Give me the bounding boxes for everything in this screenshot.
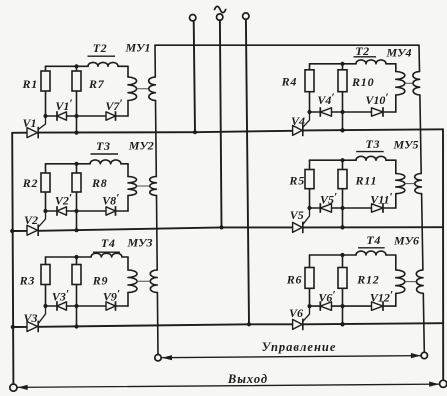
thyristor V5	[290, 208, 310, 233]
svg-text:V2: V2	[24, 213, 38, 227]
svg-text:V10′: V10′	[365, 92, 388, 107]
junction at R10 bottom	[340, 110, 344, 114]
junction at R9 bottom	[74, 304, 78, 308]
wire gate row left of МУ6	[310, 305, 321, 307]
junction R12 rail / row3	[340, 322, 344, 326]
svg-text:V6′: V6′	[318, 289, 335, 304]
svg-text:R11: R11	[355, 174, 378, 188]
resistor R5	[288, 170, 314, 189]
arrowhead output right	[429, 382, 439, 387]
diode V6'	[320, 301, 331, 311]
wire right edge of МУ4	[395, 64, 397, 72]
wire top-right of МУ3	[122, 256, 128, 258]
svg-text:МУ5: МУ5	[392, 138, 418, 152]
wire middle rail of МУ4	[342, 64, 344, 131]
resistor R6	[286, 268, 314, 289]
terminal control left	[155, 355, 161, 361]
junction at R8 bottom	[74, 209, 78, 213]
wire gate row right of МУ5	[383, 207, 396, 209]
transformer winding T3 of МУ2	[90, 160, 121, 164]
thyristor V4	[291, 112, 310, 136]
wire top of МУ3	[46, 256, 92, 258]
junction R10 rail to power row	[340, 128, 344, 132]
svg-text:R5: R5	[288, 174, 305, 188]
wire gate row mid of МУ3	[67, 305, 107, 307]
svg-text:V7′: V7′	[105, 98, 122, 113]
wire top of МУ2	[46, 163, 91, 165]
wire left rail of МУ6	[309, 255, 311, 306]
wire middle rail of МУ3	[76, 257, 78, 327]
AC supply tilde symbol	[215, 6, 226, 12]
wire middle rail of МУ2	[76, 164, 78, 230]
wire phase A	[194, 21, 195, 132]
wire row3 mid	[39, 324, 249, 327]
junction at R2 bottom	[43, 209, 47, 213]
junction phase A / row1	[193, 130, 197, 134]
control winding of МУ5	[415, 174, 422, 194]
svg-text:R12: R12	[356, 272, 379, 286]
svg-text:V2′: V2′	[55, 192, 72, 207]
resistor R1	[22, 71, 51, 91]
svg-text:T3: T3	[366, 137, 381, 151]
resistor R4	[281, 70, 314, 92]
resistor R8	[72, 173, 108, 192]
diode V5'	[320, 203, 331, 213]
svg-text:V8′: V8′	[102, 192, 119, 207]
wire control link	[162, 356, 422, 358]
magnetic core link of МУ3	[137, 280, 150, 282]
wire top-right of МУ6	[386, 254, 396, 256]
arrowhead control right	[411, 353, 421, 358]
terminal output left	[10, 384, 17, 391]
thyristor V3	[23, 306, 45, 332]
junction R12 rail to power row	[340, 322, 344, 326]
resistor R9	[72, 265, 108, 288]
wire gate row right of МУ6	[383, 305, 396, 307]
magnetic core link of МУ1	[137, 88, 148, 90]
wire right edge lower of МУ4	[395, 95, 397, 112]
wire row2 to V5	[222, 226, 293, 228]
output winding of МУ4	[396, 72, 405, 95]
wire top of МУ5	[310, 159, 357, 161]
node power row 1 (V1-V4)	[12, 132, 27, 134]
wire left rail of МУ5	[309, 160, 311, 208]
svg-text:R2: R2	[22, 176, 39, 190]
junction at R1 bottom	[43, 114, 47, 118]
magnetic core link of МУ6	[405, 281, 415, 283]
svg-text:R8: R8	[91, 176, 108, 190]
wire top of МУ1	[46, 65, 89, 67]
output winding of МУ3	[128, 270, 137, 293]
wire left rail of МУ1	[45, 66, 47, 116]
wire row1 mid	[39, 131, 195, 133]
wire right edge lower of МУ2	[127, 196, 129, 212]
wire phase C	[246, 19, 249, 324]
label T3 (МУ5)	[356, 137, 384, 152]
wire left rail of МУ4	[309, 64, 311, 112]
svg-text:R3: R3	[19, 273, 36, 287]
diode V1'	[57, 111, 67, 121]
resistor R11	[338, 170, 377, 189]
AC terminal phase C	[243, 13, 249, 19]
control winding of МУ1	[149, 77, 156, 100]
svg-text:V5: V5	[290, 208, 304, 222]
control winding of МУ2	[150, 177, 157, 196]
wire left rail of МУ3	[45, 257, 47, 306]
control winding of МУ6	[416, 270, 423, 293]
wire right edge lower of МУ3	[127, 293, 129, 307]
svg-text:V3: V3	[23, 311, 37, 325]
svg-text:V9′: V9′	[103, 288, 120, 303]
transformer winding T2 of МУ4	[356, 60, 386, 64]
svg-text:R4: R4	[281, 75, 298, 89]
wire middle rail of МУ6	[342, 255, 344, 324]
wire row1 to V4	[195, 131, 292, 132]
junction R8 top	[74, 162, 78, 166]
svg-text:R10: R10	[351, 75, 374, 89]
wire control line right	[422, 194, 423, 270]
output winding of МУ5	[396, 174, 405, 194]
svg-text:V4: V4	[291, 114, 305, 128]
wire gate row right of МУ2	[116, 210, 129, 212]
wire left output bus	[12, 133, 13, 384]
svg-text:МУ1: МУ1	[124, 41, 150, 55]
svg-text:V5′: V5′	[320, 191, 337, 206]
label T4 (МУ3)	[93, 236, 120, 252]
wire control line right	[418, 45, 421, 71]
label T2 (МУ1)	[88, 41, 116, 56]
svg-text:T4: T4	[366, 233, 381, 247]
wire gate row mid of МУ6	[332, 305, 372, 307]
wire middle rail of МУ5	[342, 160, 344, 227]
wire top-right of МУ5	[386, 159, 396, 161]
junction R8 rail to power row	[74, 228, 78, 232]
arrowhead output left	[18, 385, 28, 390]
thyristor V1	[22, 116, 45, 138]
junction at R5 bottom	[307, 206, 311, 210]
wire row2 right	[303, 226, 443, 228]
wire top of МУ4	[310, 63, 357, 65]
svg-text:МУ2: МУ2	[128, 139, 154, 153]
svg-text:T2: T2	[355, 44, 370, 58]
wire control line left	[156, 196, 159, 271]
junction R7 top	[74, 64, 78, 68]
junction R11 rail to power row	[340, 225, 344, 229]
wire control top link	[155, 44, 419, 46]
svg-text:МУ6: МУ6	[393, 233, 419, 247]
wire gate row mid of МУ4	[332, 111, 372, 113]
label T4 (МУ6)	[358, 233, 385, 248]
junction R11 top	[340, 158, 344, 162]
transformer winding T4 of МУ6	[356, 251, 386, 255]
svg-text:V11′: V11′	[370, 191, 393, 206]
svg-text:V6: V6	[289, 306, 303, 320]
wire top-right of МУ4	[386, 63, 396, 65]
junction at R11 bottom	[340, 206, 344, 210]
transformer winding T4 of МУ3	[91, 253, 122, 257]
output winding of МУ2	[128, 177, 136, 196]
wire gate row mid of МУ5	[332, 207, 372, 209]
wire gate row mid of МУ1	[67, 115, 107, 117]
control winding of МУ4	[413, 72, 420, 95]
svg-text:МУ4: МУ4	[385, 46, 411, 60]
svg-text:Выход: Выход	[227, 372, 268, 386]
wire control line left	[156, 293, 159, 355]
junction phase B / row2	[219, 225, 223, 229]
junction R9 rail to power row	[74, 324, 78, 328]
svg-text:T4: T4	[101, 236, 116, 250]
svg-text:R7: R7	[88, 77, 105, 91]
junction at R3 bottom	[43, 304, 47, 308]
wire control line right	[423, 293, 424, 352]
diode V9'	[106, 301, 116, 311]
wire row3 right	[303, 323, 443, 324]
thyristor V2	[24, 211, 46, 236]
wire control line left	[155, 101, 158, 177]
wire row2 mid	[39, 227, 222, 230]
wire gate row left of МУ5	[310, 207, 321, 209]
resistor R7	[72, 71, 105, 91]
output winding of МУ1	[128, 77, 137, 100]
junction R12 top	[340, 253, 344, 257]
svg-text:R9: R9	[92, 273, 109, 287]
resistor R12	[338, 268, 380, 289]
thyristor V6	[289, 306, 310, 330]
magnetic core link of МУ4	[405, 82, 412, 84]
magnetic core link of МУ5	[405, 183, 414, 185]
wire control line left	[154, 45, 156, 77]
diode V12'	[372, 301, 384, 311]
wire control line right	[420, 95, 421, 174]
resistor R10	[338, 70, 374, 92]
wire row1 right	[303, 129, 443, 130]
diode V2'	[57, 206, 67, 216]
AC terminal phase B	[217, 14, 223, 20]
wire right edge lower of МУ6	[395, 293, 397, 306]
wire gate row right of МУ3	[116, 305, 129, 307]
diode V8'	[106, 206, 116, 216]
diode V7'	[106, 111, 116, 121]
wire right edge lower of МУ5	[395, 194, 397, 208]
diode V3'	[57, 301, 67, 311]
junction at R7 bottom	[74, 114, 78, 118]
junction at R12 bottom	[340, 304, 344, 308]
svg-text:R1: R1	[22, 77, 39, 91]
wire right edge of МУ1	[127, 66, 129, 77]
junction at R6 bottom	[307, 304, 311, 308]
junction phase C / row3	[247, 322, 251, 326]
wire right edge lower of МУ1	[127, 101, 129, 117]
diode V10'	[372, 107, 384, 117]
wire top of МУ6	[310, 254, 357, 256]
svg-text:T3: T3	[96, 139, 111, 153]
label T2 (МУ4)	[354, 44, 377, 58]
svg-text:V12′: V12′	[370, 289, 393, 304]
junction R11 rail / row2	[340, 225, 344, 229]
wire left rail of МУ2	[45, 164, 47, 211]
junction left bus / row2	[10, 229, 14, 233]
svg-text:Управление: Управление	[262, 340, 337, 354]
junction R9 top	[74, 255, 78, 259]
output winding of МУ6	[396, 270, 405, 293]
wire top-right of МУ2	[121, 163, 128, 165]
svg-text:V4′: V4′	[317, 92, 334, 107]
wire gate row mid of МУ2	[67, 210, 107, 212]
wire gate row left of МУ4	[310, 111, 321, 113]
diode V11'	[372, 203, 384, 213]
AC terminal phase A	[190, 15, 196, 21]
wire gate row left of МУ2	[46, 210, 58, 212]
wire right edge of МУ6	[395, 255, 397, 270]
node power row 3 (V3-V6)	[13, 326, 27, 328]
terminal output right	[440, 380, 447, 387]
label T3 (МУ2)	[91, 139, 119, 154]
wire top-right of МУ1	[118, 65, 128, 67]
wire gate row right of МУ1	[116, 115, 129, 117]
svg-text:T2: T2	[93, 41, 108, 55]
wire right edge of МУ3	[127, 257, 129, 270]
diode V4'	[320, 107, 331, 117]
wire output link	[17, 384, 439, 387]
svg-text:R6: R6	[286, 272, 303, 286]
resistor R2	[22, 173, 50, 192]
transformer winding T2 of МУ1	[88, 62, 118, 66]
node power row 2 (V2-V5)	[12, 230, 27, 232]
wire right edge of МУ5	[395, 160, 397, 173]
wire right edge of МУ2	[127, 164, 129, 177]
junction R7 rail to power row	[74, 131, 78, 135]
wire phase B	[220, 20, 222, 227]
wire gate row right of МУ4	[383, 111, 396, 113]
wire right output bus	[442, 129, 444, 380]
wire row3 to V6	[249, 323, 292, 325]
transformer winding T3 of МУ5	[356, 156, 386, 160]
wire middle rail of МУ1	[76, 66, 78, 132]
svg-text:V1′: V1′	[55, 98, 72, 113]
magnetic core link of МУ2	[137, 185, 149, 187]
svg-text:V1: V1	[22, 116, 36, 130]
resistor R3	[19, 265, 50, 288]
junction R10 rail / row1	[340, 128, 344, 132]
wire gate row left of МУ1	[46, 115, 58, 117]
control winding of МУ3	[150, 270, 157, 293]
wire gate row left of МУ3	[46, 305, 58, 307]
svg-text:МУ3: МУ3	[126, 236, 152, 250]
junction at R4 bottom	[307, 110, 311, 114]
junction left bus / row3	[11, 325, 15, 329]
arrowhead control left	[162, 355, 172, 360]
terminal control right	[421, 352, 427, 358]
junction R10 top	[340, 62, 344, 66]
